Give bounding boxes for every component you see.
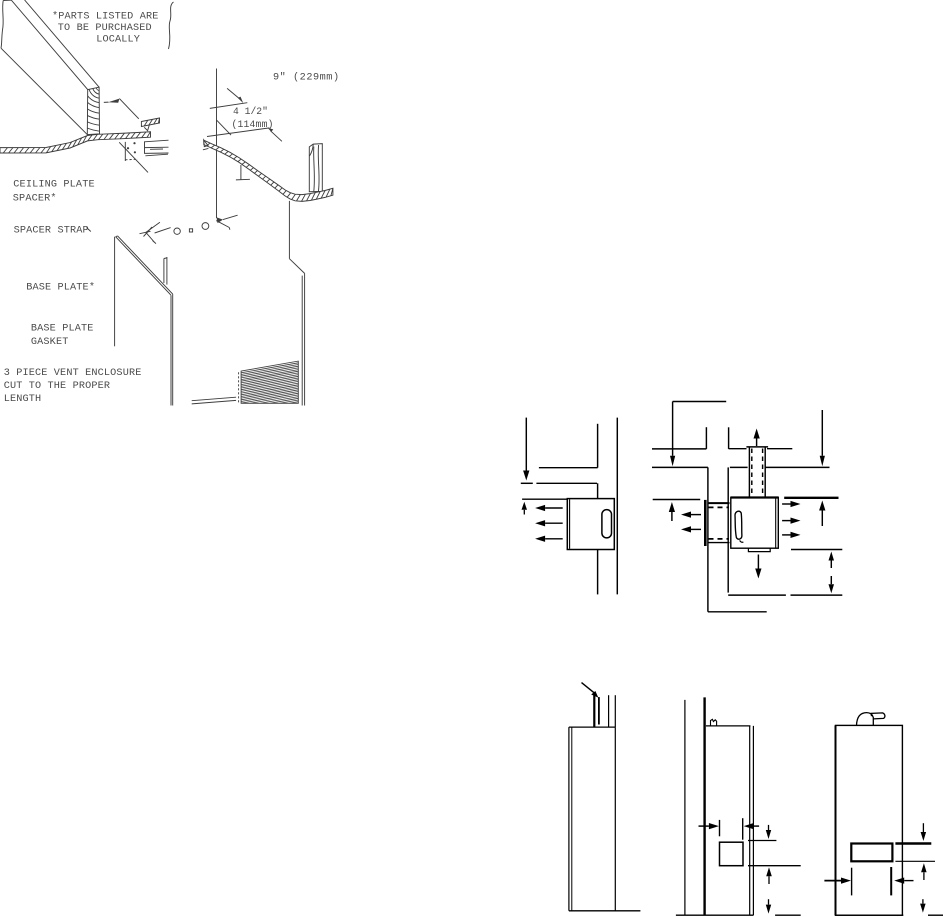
unit A pointer arrow [582, 683, 599, 698]
inner wall vertical lower (diagram 4) [727, 467, 729, 592]
ceiling plate cross-section (S-curve band with ticks) [204, 140, 333, 201]
base plate gasket tab [164, 257, 167, 285]
unit B wall line thin [684, 700, 686, 915]
base plate bottom lines [192, 397, 236, 404]
ceiling plate upturned flange (ticked) [141, 118, 159, 131]
unit B wall line bold [703, 697, 705, 915]
inner wall vertical upper (diagram 4) [728, 427, 730, 449]
unit B width arrows [699, 818, 760, 840]
label: base plate [26, 281, 95, 293]
bottom tab (diagram 4) [748, 548, 770, 551]
line from box top-left (diagram 3) [522, 498, 567, 500]
unit C opening (bold rect) [851, 844, 892, 862]
svg-text:9" (229mm): 9" (229mm) [273, 71, 340, 83]
ceiling gap segments (diagram 4) [729, 448, 793, 450]
svg-text:GASKET: GASKET [31, 337, 69, 348]
unit C floor line [835, 914, 943, 916]
label: base plate gasket [31, 323, 94, 348]
left wall vertical (diagram 4) [707, 467, 709, 611]
down arrow top-right (diagram 4) [820, 410, 825, 466]
oval slot (diagram 3) [602, 510, 612, 538]
dimension lines 4 1/2 in [207, 88, 282, 141]
dimension text 4 1/2 [232, 106, 274, 130]
grille on vent enclosure [239, 361, 299, 412]
top-left L line (diagram 4) [673, 401, 727, 403]
unit B opening [720, 842, 744, 866]
wall outer line (diagram 3) [616, 418, 618, 595]
airflow arrows left (diagram 4) [681, 512, 701, 533]
tick under plate curve [236, 165, 250, 180]
svg-text:BASE PLATE*: BASE PLATE* [26, 281, 95, 293]
svg-text:CEILING PLATE: CEILING PLATE [13, 180, 94, 191]
ceiling line lower (diagram 3) [536, 482, 597, 484]
flue pipe (diagram 4) [746, 447, 768, 497]
upper wall corner line (diagram 4) [652, 427, 706, 449]
unit C bottom arrows [824, 867, 913, 895]
svg-text:4 1/2": 4 1/2" [233, 106, 268, 117]
wall thimble plate (diagram 4) [705, 500, 729, 546]
wall inner line upper (diagram 3) [597, 424, 599, 468]
svg-text:TO BE PURCHASED: TO BE PURCHASED [58, 23, 152, 34]
unit B clearance line upper right [748, 840, 776, 842]
tick below arrow (diagram 3) [521, 482, 533, 484]
dimension text 9in [273, 71, 340, 83]
wood grain on joist end face [56, 87, 100, 131]
unit A vent pipes [594, 695, 615, 727]
svg-text:BASE PLATE: BASE PLATE [31, 323, 94, 334]
unit C draft hood [857, 713, 885, 726]
ceiling line upper (diagram 3) [539, 467, 598, 469]
up arrow left (diagram 4) [669, 502, 675, 521]
unit B bottom down arrow [766, 899, 771, 913]
airflow arrows left (diagram 3) [535, 505, 563, 542]
airflow arrows right (diagram 4) [782, 501, 800, 538]
label: ceiling plate spacer [13, 180, 95, 205]
svg-text:LOCALLY: LOCALLY [96, 35, 140, 46]
vent enclosure (left view) [289, 201, 304, 406]
unit B top clip [711, 719, 717, 726]
wood joist (diagonal beam) [1, 0, 100, 135]
left wall bottom (diagram 4) [708, 611, 767, 613]
unit B floor line [676, 914, 801, 916]
wall inner line mid (diagram 3) [597, 483, 599, 498]
svg-text:LENGTH: LENGTH [4, 394, 42, 405]
clearance down arrow (diagram 3) [523, 418, 529, 481]
clearance up arrow (diagram 3) [522, 502, 528, 515]
svg-text:*PARTS LISTED ARE: *PARTS LISTED ARE [52, 11, 158, 23]
base plate (thin sheet) [115, 236, 173, 406]
svg-text:SPACER STRAP: SPACER STRAP [14, 226, 89, 237]
unit B down arrow upper right [766, 825, 771, 839]
unit B up arrow right [766, 867, 772, 884]
wood post on ceiling plate [309, 144, 322, 192]
up arrow under shelf (diagram 4) [819, 501, 825, 527]
fold at plate tip [203, 140, 209, 150]
wall inner line lower (diagram 3) [597, 550, 599, 595]
svg-text:(114mm): (114mm) [232, 119, 274, 130]
svg-text:CUT TO THE PROPER: CUT TO THE PROPER [4, 381, 110, 392]
unit B clearance line lower right [748, 865, 801, 867]
label: spacer strap [14, 226, 91, 237]
bold shelf line right (diagram 4) [784, 497, 838, 499]
break squiggle right of note [169, 2, 174, 49]
note text: parts purchased locally [52, 11, 158, 46]
spacer strap (isometric strip with holes) [140, 222, 209, 243]
ceiling surface left (diagram 4) [652, 466, 708, 468]
unit A cabinet (side view) [569, 727, 641, 911]
bottom-right arrows (diagram 4) [829, 552, 835, 594]
leader arrow at centerline bottom [216, 215, 237, 230]
svg-text:SPACER*: SPACER* [13, 192, 57, 204]
inner wall bottom (diagram 4) [728, 594, 786, 596]
heater box (diagram 4) [731, 497, 779, 548]
ceiling plate (left view, banded with ticks) [0, 132, 151, 153]
unit C cabinet (front view) [836, 725, 903, 915]
dimension arrow at joist [104, 99, 139, 119]
unit B cabinet [706, 726, 754, 915]
svg-text:3 PIECE VENT ENCLOSURE: 3 PIECE VENT ENCLOSURE [4, 368, 142, 379]
spacer bracket detail (dots and lines) [119, 140, 168, 172]
ceiling surface right (diagram 4) [730, 466, 830, 468]
flue up arrow (diagram 4) [754, 429, 760, 447]
unit C right dims [895, 823, 935, 912]
line left of wall (diagram 4) [653, 499, 701, 501]
down arrow top-left (diagram 4) [670, 402, 675, 467]
down arrow below box (diagram 4) [755, 555, 761, 579]
heater box (diagram 3) [567, 499, 614, 550]
oval slot (diagram 4) [735, 511, 743, 542]
label: 3 piece vent enclosure [4, 368, 142, 405]
centerline of vent (second view) [216, 69, 218, 219]
bottom-right clearance lines (diagram 4) [791, 550, 843, 596]
